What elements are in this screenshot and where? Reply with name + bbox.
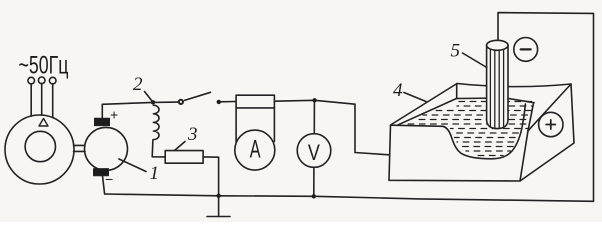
node J3 voltmeter bottom [312,194,316,198]
liquid level line [457,98,534,103]
inductor L1 [153,105,159,139]
svg-text:~50Гц: ~50Гц [19,52,69,80]
voltmeter V1 wire top [313,100,315,134]
wire inductor to resistor [152,140,165,157]
electrode rod hatching [490,50,503,129]
leader line 5 [463,53,487,68]
electrode rod body [487,45,508,128]
terminal T2 [38,77,45,84]
ammeter A1 shunt box [236,95,274,141]
generator G1 circle [85,127,128,170]
svg-text:4: 4 [393,80,403,101]
motor M1 inner circle [25,131,55,161]
plus terminal sign [546,120,555,129]
switch S1 blade [185,92,211,100]
electrode rod top ellipse [487,40,508,50]
motor M1 delta symbol [39,119,48,127]
wire cathode riser [498,13,594,202]
bath inner right corner edge [528,103,534,131]
voltmeter V1 wire bottom [313,167,315,196]
generator G1 bottom brush [94,169,109,176]
wire bottom bus [105,194,594,201]
bath front right edge [520,131,528,181]
ammeter A1 divider [236,107,274,109]
wire generator minus down [103,176,105,194]
ground stem [218,196,220,217]
leader line 2 [145,92,154,103]
node J4 ground junction [216,194,220,198]
terminal T1 [28,77,35,84]
wire corner down to bath [355,104,389,155]
svg-text:5: 5 [451,41,461,62]
bath back-left inner corner [456,84,458,99]
terminal T3 [49,77,56,84]
svg-text:2: 2 [133,74,143,95]
generator G1 top brush [95,118,110,125]
switch S1 pivot dot [217,100,221,104]
wire top to junction [102,102,178,104]
shaft coupling [74,144,86,146]
liquid hatching [407,102,532,156]
node J1 [151,100,155,104]
wire switch to ammeter [220,101,237,103]
wire resistor to ground node [203,157,219,196]
switch S1 left contact [179,100,183,104]
bath front top edge [391,125,444,126]
minus terminal sign [521,48,531,50]
svg-text:3: 3 [187,124,198,145]
node J2 voltmeter top [312,98,316,102]
bath cutaway U edge [443,104,525,159]
voltmeter V1 circle [297,134,331,168]
bath left rim inner edge [397,98,457,125]
wire terminal T3 to motor [52,84,54,118]
svg-text:−: − [105,171,113,187]
motor M1 outer circle [5,115,74,184]
leader line 4 [404,93,426,102]
minus terminal circle [514,38,538,62]
bath right face top edge [528,84,571,131]
svg-text:1: 1 [150,163,160,184]
ammeter A1 circle [235,130,275,170]
leader line 3 [175,142,186,151]
bath outline [389,84,574,182]
svg-text:+: + [110,107,118,123]
wire generator plus up [101,104,103,118]
resistor R1 [165,151,203,164]
ground bar [207,216,230,218]
plus terminal circle [539,112,563,136]
wire ammeter to corner [274,100,355,104]
wire terminal T2 to motor [41,84,43,116]
wire terminal T1 to motor [30,84,32,116]
svg-text:V: V [308,140,320,165]
svg-text:A: A [250,136,261,164]
leader line 1 [119,159,146,172]
